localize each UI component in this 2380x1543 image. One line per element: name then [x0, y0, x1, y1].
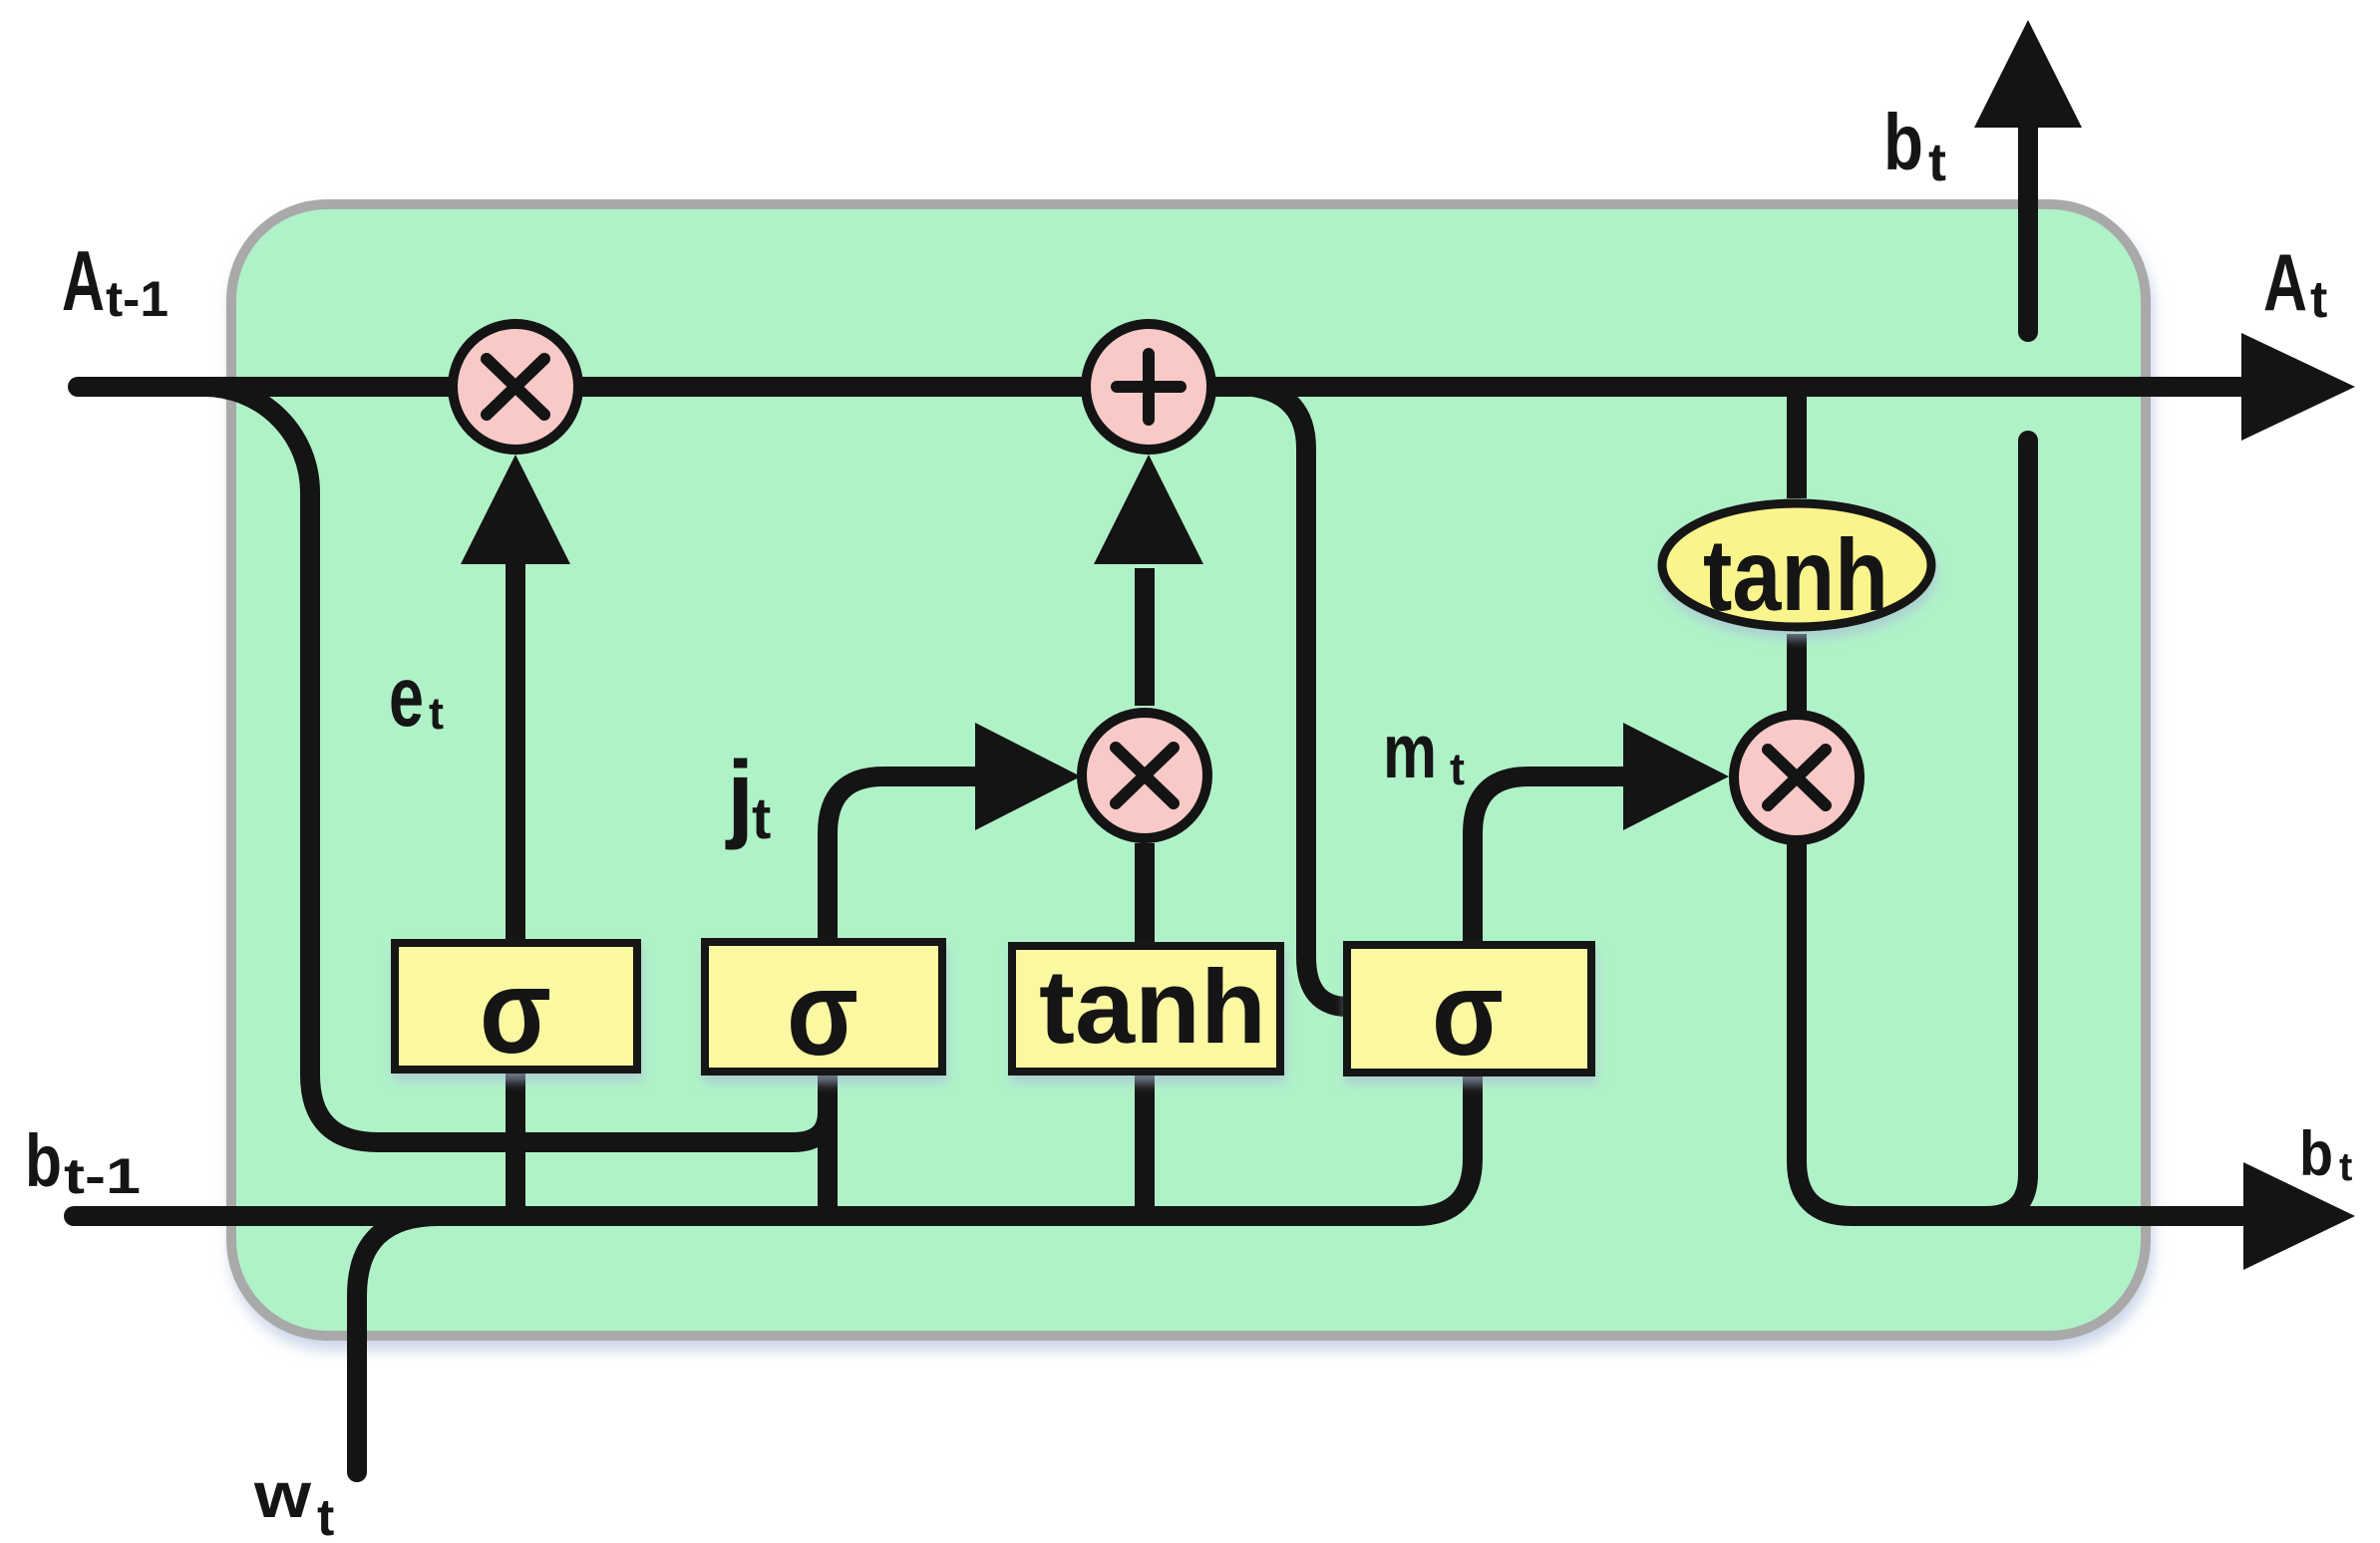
svg-text:tanh: tanh	[1703, 518, 1888, 632]
svg-text:w: w	[253, 1458, 312, 1531]
svg-text:j: j	[725, 741, 754, 850]
svg-text:t: t	[2339, 1145, 2352, 1189]
svg-text:t-1: t-1	[64, 1148, 141, 1204]
svg-text:A: A	[62, 234, 105, 329]
svg-text:b: b	[2299, 1119, 2333, 1189]
svg-text:t: t	[1450, 744, 1465, 794]
svg-text:m: m	[1383, 709, 1437, 794]
svg-text:σ: σ	[1432, 945, 1504, 1080]
svg-text:t: t	[317, 1489, 334, 1543]
svg-text:e: e	[389, 650, 424, 745]
svg-text:t: t	[2310, 271, 2327, 329]
svg-text:t: t	[1928, 133, 1946, 192]
svg-text:t: t	[752, 786, 771, 851]
svg-text:t-1: t-1	[106, 271, 169, 327]
svg-text:σ: σ	[480, 943, 551, 1079]
svg-text:A: A	[2263, 238, 2307, 328]
svg-text:t: t	[429, 688, 444, 739]
svg-text:σ: σ	[787, 945, 858, 1080]
svg-text:b: b	[1883, 98, 1923, 186]
svg-text:b: b	[25, 1119, 62, 1202]
svg-text:tanh: tanh	[1039, 949, 1266, 1066]
